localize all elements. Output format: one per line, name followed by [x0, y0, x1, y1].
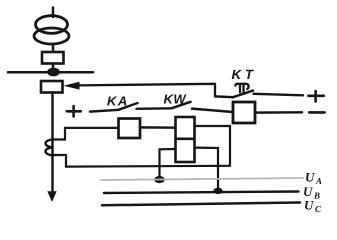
relay coil KT [233, 102, 255, 123]
contact KW blade [172, 102, 191, 109]
trip arrow head into breaker [64, 82, 80, 90]
contact KA blade [119, 103, 138, 110]
wire: CT secondary top lead to KA coil [54, 128, 119, 140]
plus terminal (left) [67, 106, 81, 116]
wire: KA coil to KW current coil [140, 126, 176, 129]
svg-text:U: U [304, 198, 314, 213]
circuit breaker Q [41, 81, 63, 93]
busbar [8, 71, 93, 74]
svg-text:U: U [305, 170, 315, 185]
wire: trip circuit from KT contact to breaker [78, 84, 215, 97]
wire: KW voltage coil to Ub [195, 148, 219, 191]
minus terminal (right) [309, 111, 324, 114]
arrow: feeder direction [47, 191, 56, 202]
bus Ub [104, 192, 299, 194]
wire: box to busbar [52, 64, 54, 72]
svg-text:KT: KT [232, 67, 257, 82]
svg-text:C: C [315, 204, 322, 213]
wire: KT contact to plus [254, 94, 304, 96]
node: busbar junction [47, 68, 60, 77]
relay coil KA [119, 119, 141, 139]
svg-text:B: B [313, 191, 320, 201]
transformer output box [42, 52, 64, 64]
node on Ua [154, 176, 165, 183]
transformer T winding 2 [34, 28, 69, 44]
svg-text:A: A [315, 176, 322, 186]
transformer T winding 1 [36, 16, 68, 34]
relay KW power-directional coil [176, 117, 195, 162]
wire: plus to KA contact [90, 110, 119, 112]
wire: return riser to KW current coil [195, 126, 231, 166]
bus Ua [101, 178, 303, 180]
contact KT time-delay: left lead [215, 95, 233, 98]
bus Uc [102, 203, 300, 206]
wire: HV lead above transformer [52, 8, 54, 18]
node on Ub [213, 188, 222, 194]
wire: KW contact to KT coil [192, 109, 233, 112]
current transformer TA secondary [46, 139, 54, 155]
wire: KW voltage coil to Ua [160, 149, 176, 179]
svg-text:KA: KA [107, 94, 129, 109]
contact KT dashpot cup [235, 84, 248, 92]
svg-text:KW: KW [164, 92, 188, 107]
wire: KT coil to minus [255, 111, 302, 114]
wire: feeder line [51, 93, 53, 195]
wire: transformer to box [52, 44, 54, 53]
plus terminal (right) [308, 91, 323, 101]
wire: CT secondary bottom lead [54, 155, 230, 167]
wire: KA contact to KW contact [137, 107, 172, 110]
contact KT blade [233, 91, 253, 98]
